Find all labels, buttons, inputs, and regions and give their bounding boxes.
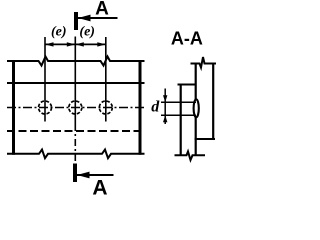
svg-text:d: d <box>151 99 160 116</box>
svg-text:(e): (e) <box>51 25 67 40</box>
svg-text:(e): (e) <box>79 25 95 40</box>
svg-text:A: A <box>92 177 107 196</box>
svg-text:A: A <box>95 0 109 20</box>
svg-text:A-A: A-A <box>171 29 203 49</box>
